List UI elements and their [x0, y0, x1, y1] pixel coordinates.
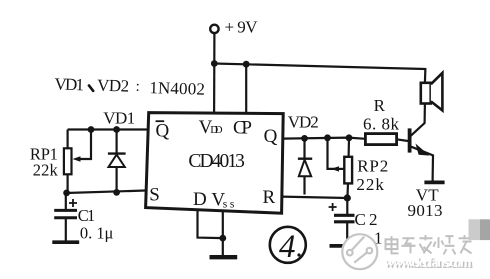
resistor R body [365, 134, 396, 145]
svg-text:www.elecfans.com: www.elecfans.com [384, 255, 472, 270]
wire R pin run [282, 197, 348, 198]
svg-text:Q: Q [156, 121, 170, 142]
node junction RP2 top [346, 134, 353, 141]
char you [459, 235, 472, 253]
ground below C2 [330, 244, 360, 248]
svg-text:CP: CP [233, 118, 252, 139]
diode VD1 [115, 130, 117, 154]
wire RP1 bottom lead [66, 174, 68, 193]
watermark logo circle [342, 234, 377, 269]
label VD1 VD2 : 1N4002 [54, 75, 205, 99]
svg-text:6. 8k: 6. 8k [363, 115, 400, 134]
svg-text:1N4002: 1N4002 [149, 78, 205, 99]
svg-text:4: 4 [279, 229, 296, 265]
wire from +9V terminal down to rail [213, 33, 215, 63]
capacitor C1 (electrolytic) [65, 193, 67, 210]
char dian [386, 236, 399, 253]
speaker LS horn [431, 73, 443, 111]
svg-text:VD1: VD1 [103, 109, 135, 128]
watermark gray blocks [469, 219, 481, 240]
wire Qbar pin to left [68, 128, 150, 130]
wire CP drop [245, 64, 247, 114]
node junction VD1 top [113, 126, 120, 133]
emitter arrowhead [416, 144, 430, 156]
wire RP1 wiper riser [76, 130, 91, 160]
svg-text:+ 9V: + 9V [225, 18, 259, 37]
wire RP1 top lead [66, 130, 68, 149]
wire Q pin to resistor R [283, 138, 366, 139]
wire RP2 bottom lead [346, 183, 349, 198]
wire VDD drop [213, 64, 215, 114]
RP2 wiper arrowhead [331, 166, 339, 171]
IC U1 CD4013 box [146, 113, 284, 214]
+9V power rail wire (horizontal to speaker) [214, 64, 425, 70]
wire S pin run (bottom left) [66, 190, 149, 193]
ground below C1 [52, 240, 79, 244]
C1 plus sign [69, 199, 77, 207]
node junction D/VSS [219, 235, 226, 242]
C2 plus sign [329, 203, 337, 211]
svg-text:CD4013: CD4013 [188, 151, 245, 172]
svg-text:0. 1μ: 0. 1μ [80, 224, 114, 243]
svg-text:22k: 22k [356, 175, 384, 194]
svg-text:R: R [374, 96, 386, 115]
svg-text:RP2: RP2 [357, 157, 388, 176]
wire RP2 top lead [348, 138, 351, 157]
node junction RP1 bottom / C1 [63, 190, 70, 197]
transistor emitter wire [410, 146, 433, 180]
wire RP2 wiper riser [328, 138, 339, 169]
char fa [420, 235, 433, 253]
svg-text:VD2: VD2 [97, 76, 130, 96]
svg-text:S: S [149, 185, 160, 206]
svg-text:VD1: VD1 [54, 75, 84, 95]
node junction at CP rail [243, 61, 250, 68]
ground below VSS [210, 255, 238, 259]
speaker LS driver [421, 83, 431, 104]
transistor collector wire [410, 104, 425, 137]
potentiometer RP2 body [344, 157, 352, 184]
wire D pin [198, 210, 223, 239]
wire R to transistor base [397, 139, 408, 141]
node junction VD1 bottom [113, 189, 120, 196]
svg-text:C1: C1 [78, 206, 96, 225]
RP1 wiper arrowhead [73, 156, 81, 162]
svg-text::: : [135, 79, 140, 95]
svg-text:Q: Q [264, 126, 278, 147]
wire RP2 wiper to body [338, 168, 344, 170]
ground at emitter [424, 180, 444, 184]
diode VD2 [303, 138, 305, 158]
figure number circle 4 [270, 227, 306, 263]
svg-text:9013: 9013 [408, 201, 443, 220]
node junction C2 / RP2 bottom [344, 194, 351, 201]
watermark chinese characters (approximation) [384, 233, 470, 252]
svg-text:R: R [263, 187, 276, 208]
node junction RP2 wiper [324, 134, 331, 141]
node junction VD2 top [301, 135, 308, 142]
svg-text:D: D [193, 189, 207, 210]
transistor Q1 base bar [408, 128, 412, 152]
wire rail corner down to speaker [424, 68, 427, 83]
node junction wiper/Qbar [88, 126, 95, 133]
node junction at VDD rail [211, 60, 218, 67]
wire VSS pin to ground [222, 211, 224, 256]
svg-text:VD2: VD2 [288, 113, 319, 132]
svg-text:22k: 22k [33, 161, 59, 180]
+9V supply terminal [210, 25, 218, 33]
capacitor C2 (electrolytic) [346, 198, 348, 215]
char shao [434, 236, 456, 254]
svg-text:C2: C2 [355, 210, 378, 229]
char zi [402, 238, 416, 253]
svg-text:DD: DD [210, 124, 222, 136]
potentiometer RP1 body [64, 148, 72, 174]
